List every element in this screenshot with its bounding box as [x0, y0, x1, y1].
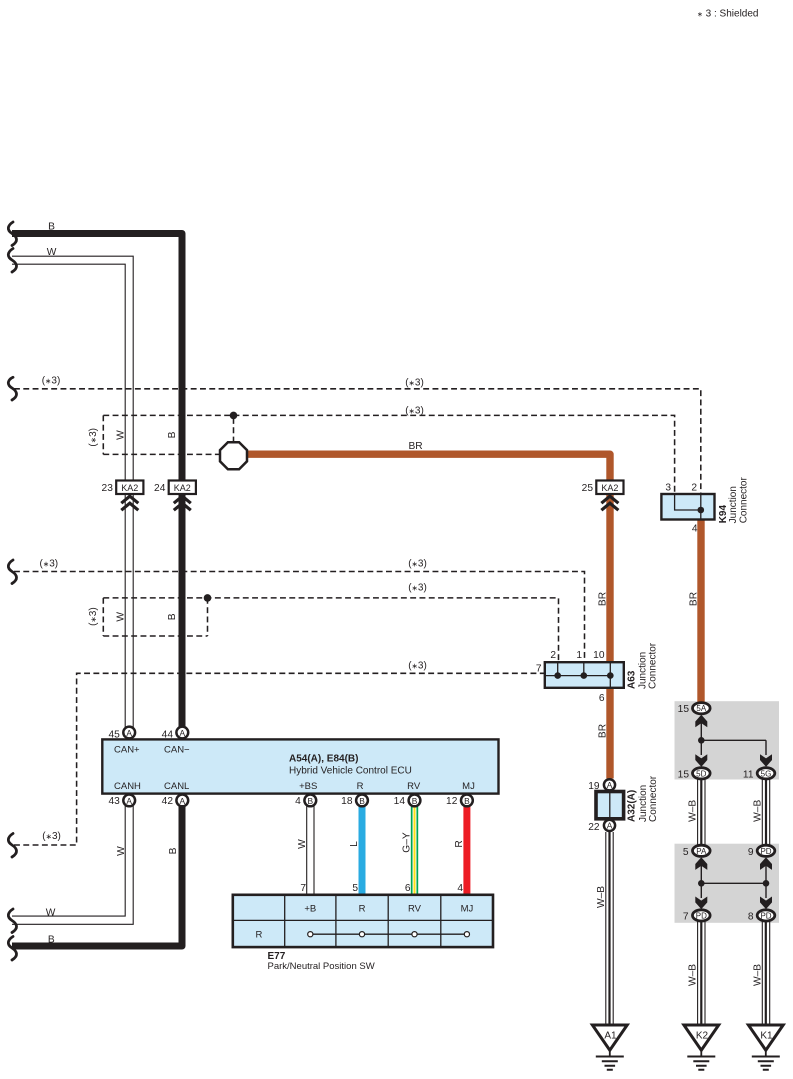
svg-text:7: 7 — [683, 911, 689, 922]
svg-text:1: 1 — [576, 650, 582, 661]
svg-text:43: 43 — [108, 796, 120, 807]
octagon shield ground — [220, 442, 247, 469]
ECU pin 12 — [461, 795, 473, 807]
svg-text:W: W — [297, 839, 308, 849]
wire W top (double line) — [12, 256, 133, 480]
svg-text:(∗3): (∗3) — [42, 831, 61, 842]
svg-text:Connector: Connector — [648, 642, 659, 689]
arrow down to 5G — [760, 755, 771, 766]
bus line upper — [698, 737, 705, 744]
ECU pin 4 — [304, 795, 316, 807]
svg-text:A: A — [607, 821, 613, 831]
svg-text:B: B — [167, 613, 178, 620]
svg-text:5G: 5G — [761, 769, 772, 778]
wire BR main (octagon to A32 pin19) — [246, 454, 610, 778]
node 5G — [757, 768, 775, 779]
wire W-B 5G to PD — [762, 779, 769, 845]
svg-text:8: 8 — [748, 911, 754, 922]
svg-text:44: 44 — [162, 730, 174, 741]
wire W-B PD8 to ground K1 — [762, 921, 769, 1024]
break squiggle W bottom — [8, 909, 16, 933]
svg-text:A: A — [180, 728, 186, 738]
ground A1 — [592, 1025, 627, 1050]
wire B top thick — [12, 234, 182, 728]
svg-text:2: 2 — [550, 650, 556, 661]
bus line lower — [701, 865, 766, 898]
wire W +BS column — [307, 806, 314, 895]
svg-text:CANL: CANL — [164, 781, 189, 792]
svg-text:KA2: KA2 — [601, 483, 618, 493]
svg-text:W: W — [47, 247, 57, 258]
svg-text:B: B — [167, 431, 178, 438]
svg-text:7: 7 — [536, 664, 542, 675]
svg-text:5A: 5A — [696, 704, 706, 713]
svg-text:BR: BR — [598, 724, 609, 738]
svg-text:(∗3): (∗3) — [405, 377, 424, 388]
wire BR K94 pin4 to 5A — [697, 519, 704, 703]
connector 23 KA2 — [116, 481, 143, 495]
svg-text:14: 14 — [394, 796, 406, 807]
arrow up into 5A — [696, 715, 707, 726]
svg-text:R: R — [255, 930, 262, 941]
svg-text:(∗3): (∗3) — [88, 607, 99, 626]
svg-text:K2: K2 — [696, 1031, 709, 1042]
svg-text:12: 12 — [446, 796, 458, 807]
svg-text:Connector: Connector — [648, 775, 659, 822]
svg-text:18: 18 — [341, 796, 353, 807]
svg-text:PD: PD — [760, 847, 771, 856]
svg-text:10: 10 — [593, 650, 605, 661]
arrow up into PA — [696, 858, 707, 869]
chevron 25 — [601, 496, 618, 510]
node 5D — [693, 768, 711, 779]
svg-text:PD: PD — [760, 911, 771, 920]
svg-text:22: 22 — [588, 822, 600, 833]
wire W-B PD7 to ground K2 — [698, 921, 705, 1024]
shield line 5 to A63 pin7 — [14, 673, 545, 845]
svg-text:5D: 5D — [696, 769, 706, 778]
svg-text:(∗3): (∗3) — [408, 559, 427, 570]
ECU A54/E84 box — [102, 739, 498, 793]
shield box1 left — [102, 415, 104, 454]
wire W-B left column (A32 to ground A1) — [606, 779, 770, 1024]
arrow down to 5D — [696, 755, 707, 766]
svg-text:15: 15 — [678, 769, 690, 780]
svg-text:L: L — [349, 841, 360, 847]
switch E77 box — [233, 895, 493, 947]
svg-text:5: 5 — [352, 883, 358, 894]
relay block box lower — [675, 844, 780, 923]
break squiggle B top — [8, 222, 16, 246]
break squiggle line1 — [8, 377, 16, 400]
svg-text:5: 5 — [683, 847, 689, 858]
svg-text:W: W — [115, 430, 126, 440]
junction connector A63 — [545, 662, 624, 688]
shield box2 left — [102, 598, 104, 636]
ECU pin 18 — [356, 795, 368, 807]
shield dashed lines — [14, 389, 701, 845]
shield line 4 box2-top to A63 pin2 — [103, 598, 558, 662]
junction connector K94 — [661, 494, 714, 520]
wire R red — [463, 806, 470, 895]
shield box1 bottom — [103, 453, 219, 455]
svg-text:(∗3): (∗3) — [42, 376, 61, 387]
arrow up into PD9 — [760, 858, 771, 869]
svg-text:4: 4 — [692, 524, 698, 535]
svg-text:A: A — [180, 796, 186, 806]
ECU pin 43 — [123, 795, 135, 807]
svg-text:W–B: W–B — [752, 964, 763, 986]
node PD7 — [693, 910, 711, 921]
svg-text:R: R — [359, 903, 366, 914]
wire W bottom (ECU 43 to left edge) — [12, 806, 133, 924]
junction connector A32(A) — [604, 779, 615, 790]
svg-text:W: W — [46, 907, 56, 918]
svg-text:A1: A1 — [604, 1031, 617, 1042]
svg-text:W: W — [116, 846, 127, 856]
svg-text:A32(A): A32(A) — [626, 790, 637, 822]
svg-text:A: A — [607, 780, 613, 790]
svg-text:R: R — [454, 840, 465, 847]
svg-text:KA2: KA2 — [174, 483, 191, 493]
svg-text:PD: PD — [696, 911, 707, 920]
node PD8 — [757, 910, 775, 921]
node PA — [693, 845, 711, 856]
ECU pin 14 — [409, 795, 421, 807]
svg-text:15: 15 — [678, 704, 690, 715]
svg-text:+BS: +BS — [299, 781, 317, 792]
svg-text:6: 6 — [405, 883, 411, 894]
svg-text:∗ 3 : Shielded: ∗ 3 : Shielded — [697, 8, 758, 19]
svg-text:PA: PA — [696, 847, 707, 856]
svg-text:BR: BR — [598, 592, 609, 606]
shield junction dot box2 — [204, 594, 212, 602]
ground K2 — [684, 1025, 719, 1050]
svg-text:2: 2 — [691, 483, 697, 494]
wire B bottom thick — [12, 806, 182, 946]
svg-text:B: B — [412, 796, 418, 806]
svg-text:B: B — [48, 222, 55, 233]
svg-text:23: 23 — [102, 483, 114, 494]
svg-text:B: B — [48, 934, 55, 945]
svg-text:A54(A), E84(B): A54(A), E84(B) — [289, 754, 358, 765]
svg-text:Hybrid Vehicle Control ECU: Hybrid Vehicle Control ECU — [289, 766, 412, 777]
shield stub to octagon — [233, 418, 235, 441]
svg-text:+B: +B — [304, 903, 316, 914]
svg-text:G–Y: G–Y — [401, 832, 412, 853]
shield box2 right — [207, 598, 209, 636]
break squiggle line3 — [8, 560, 16, 584]
svg-text:W: W — [115, 612, 126, 622]
svg-text:B: B — [359, 796, 365, 806]
svg-text:11: 11 — [743, 769, 754, 780]
svg-text:A: A — [126, 728, 132, 738]
wire L blue — [359, 806, 366, 895]
svg-text:CAN−: CAN− — [164, 745, 190, 756]
svg-text:B: B — [308, 796, 314, 806]
svg-text:42: 42 — [162, 796, 174, 807]
shield line 3 to A63 pin1 — [14, 572, 585, 663]
svg-text:6: 6 — [599, 693, 605, 704]
break squiggle B bottom — [8, 937, 16, 961]
svg-text:4: 4 — [295, 796, 301, 807]
svg-text:A63: A63 — [627, 670, 638, 689]
arrow down to PD7 — [696, 897, 707, 908]
ECU pin 44 — [176, 727, 188, 739]
svg-text:KA2: KA2 — [121, 483, 138, 493]
shield junction dot line2 — [230, 412, 238, 420]
svg-text:(∗3): (∗3) — [39, 559, 58, 570]
chevron 24 — [174, 496, 191, 510]
svg-text:A: A — [126, 796, 132, 806]
svg-text:7: 7 — [300, 883, 306, 894]
svg-text:RV: RV — [407, 781, 421, 792]
shield box2 bottom — [103, 635, 207, 637]
svg-text:Connector: Connector — [738, 476, 749, 523]
svg-text:24: 24 — [154, 483, 166, 494]
node PD9 — [757, 845, 775, 856]
svg-text:3: 3 — [665, 483, 671, 494]
svg-text:9: 9 — [748, 847, 754, 858]
svg-text:45: 45 — [108, 730, 120, 741]
svg-text:MJ: MJ — [462, 781, 475, 792]
svg-text:K1: K1 — [760, 1031, 773, 1042]
wire W mid (pins 23KA2 to ECU 45) — [125, 494, 133, 728]
svg-text:MJ: MJ — [461, 903, 474, 914]
shield line 2 box1-top to K94 pin3 — [103, 415, 674, 494]
wire W-B 5D to PA — [698, 779, 705, 845]
break squiggle line5 — [8, 834, 16, 858]
svg-text:W–B: W–B — [688, 964, 699, 986]
svg-text:4: 4 — [457, 883, 463, 894]
svg-text:(∗3): (∗3) — [88, 428, 99, 447]
svg-text:W–B: W–B — [688, 800, 699, 822]
connector 25 KA2 — [596, 481, 623, 495]
svg-text:(∗3): (∗3) — [405, 406, 424, 417]
svg-text:B: B — [464, 796, 470, 806]
switch contacts E77 — [310, 933, 467, 935]
ECU pin 42 — [176, 795, 188, 807]
arrow down to PD8 — [760, 897, 771, 908]
connector 24 KA2 — [169, 481, 196, 495]
node 5A — [693, 703, 711, 714]
svg-text:(∗3): (∗3) — [408, 583, 427, 594]
svg-text:B: B — [168, 847, 179, 854]
svg-text:R: R — [357, 781, 364, 792]
ECU pin 45 — [123, 727, 135, 739]
chevron 23 — [121, 496, 138, 510]
svg-text:W–B: W–B — [596, 886, 607, 908]
svg-text:BR: BR — [689, 592, 700, 606]
svg-text:RV: RV — [408, 903, 422, 914]
svg-text:Park/Neutral Position SW: Park/Neutral Position SW — [268, 961, 375, 972]
relay block box upper — [675, 701, 780, 779]
svg-text:25: 25 — [582, 483, 594, 494]
wire G-Y green/yellow — [411, 806, 418, 895]
svg-text:CAN+: CAN+ — [114, 745, 140, 756]
svg-text:BR: BR — [409, 441, 423, 452]
svg-text:CANH: CANH — [114, 781, 141, 792]
ground K1 — [748, 1025, 783, 1050]
svg-text:W–B: W–B — [752, 800, 763, 822]
shield line 1 to K94 pin2 — [14, 389, 701, 494]
break squiggle W top — [8, 249, 16, 273]
svg-text:(∗3): (∗3) — [408, 661, 427, 672]
